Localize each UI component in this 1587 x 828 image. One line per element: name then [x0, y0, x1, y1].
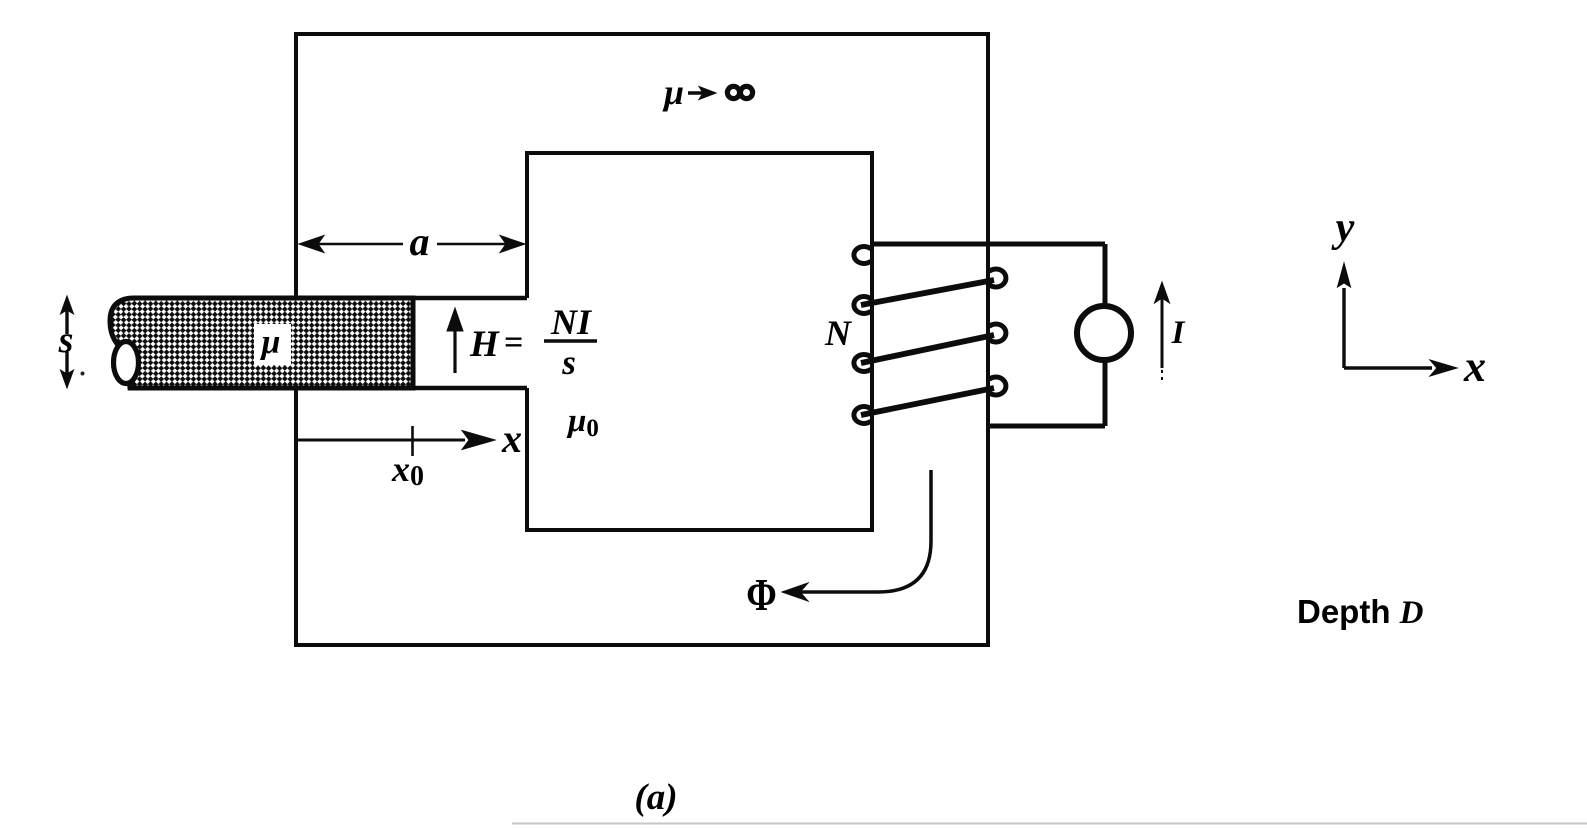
svg-text:s: s	[58, 319, 74, 361]
svg-text:x: x	[1463, 342, 1486, 391]
H field arrow	[447, 308, 463, 373]
svg-text:NI: NI	[550, 302, 593, 342]
coil top lead wire	[870, 242, 1105, 247]
svg-text:y: y	[1331, 205, 1355, 251]
coordinate axes	[1338, 263, 1458, 376]
svg-text:s: s	[561, 343, 576, 382]
core outer boundary	[296, 34, 988, 645]
I arrow	[1155, 282, 1170, 380]
svg-text:I: I	[1171, 315, 1186, 351]
s dimension arrow up	[61, 296, 74, 334]
svg-text:a: a	[410, 219, 430, 264]
coil N turns	[854, 247, 1006, 424]
svg-text:x: x	[501, 416, 522, 461]
core window (inner boundary)	[527, 153, 872, 530]
air-gap channel top edge	[296, 296, 527, 301]
source bottom wire	[1103, 356, 1108, 426]
current source	[1077, 306, 1131, 360]
scan dot	[81, 372, 85, 376]
svg-text:H: H	[469, 324, 500, 365]
svg-text:x0: x0	[391, 449, 424, 492]
s dimension arrow down	[61, 352, 74, 388]
x axis of plunger position	[297, 431, 495, 450]
x0 tick	[411, 426, 414, 456]
a dimension line	[299, 236, 525, 253]
flux arrow	[799, 470, 931, 592]
svg-text:μ: μ	[260, 324, 281, 361]
page edge line	[512, 823, 1587, 825]
svg-text:Depth D: Depth D	[1297, 593, 1424, 631]
svg-text:μ0: μ0	[566, 403, 599, 442]
mu label box	[254, 324, 291, 365]
plunger end face	[114, 342, 139, 384]
svg-text:μ: μ	[662, 72, 684, 112]
svg-text:(a): (a)	[634, 777, 677, 818]
coil bottom lead wire	[988, 424, 1105, 429]
svg-text:=: =	[504, 324, 523, 361]
source top wire	[1103, 244, 1108, 310]
svg-text:N: N	[824, 313, 853, 353]
air-gap channel bottom edge	[296, 386, 527, 391]
plunger body (permeability mu)	[110, 298, 413, 388]
svg-text:Φ: Φ	[746, 570, 777, 621]
